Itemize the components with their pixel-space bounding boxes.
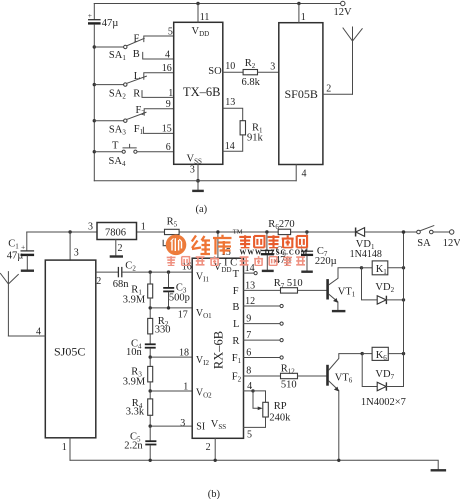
diode VD2: [362, 268, 404, 304]
watermark subtitle char 3: [268, 235, 280, 248]
svg-text:2: 2: [118, 243, 123, 254]
svg-text:F: F: [134, 33, 140, 44]
svg-text:68n: 68n: [113, 279, 130, 290]
svg-text:R: R: [133, 88, 140, 99]
svg-text:13: 13: [245, 280, 255, 291]
svg-text:L: L: [233, 319, 239, 330]
svg-text:T: T: [233, 269, 240, 280]
svg-text:SA1: SA1: [109, 50, 126, 62]
svg-text:3: 3: [180, 418, 185, 429]
svg-text:F2: F2: [232, 372, 242, 384]
node dot K1 left: [360, 266, 363, 269]
wire SJ05C pin 4: [8, 326, 45, 337]
svg-text:RX–6B: RX–6B: [212, 331, 226, 369]
resistor R4 3.3k: [126, 391, 153, 426]
svg-text:WWW.DZSC.COM: WWW.DZSC.COM: [240, 250, 309, 257]
wire to pin 17: [150, 308, 192, 320]
svg-text:C2: C2: [125, 261, 136, 273]
svg-text:F1: F1: [232, 353, 242, 365]
svg-text:B: B: [133, 49, 140, 60]
svg-text:R5: R5: [167, 217, 178, 229]
node dot right rail top: [402, 230, 406, 234]
svg-text:RP: RP: [274, 401, 287, 412]
svg-text:4: 4: [36, 326, 41, 337]
resistor R1 3.9M (b): [123, 272, 153, 308]
wire pin 4 stub: [244, 381, 254, 392]
watermark subtitle char 1: [239, 235, 251, 248]
transistor VT6: [328, 354, 363, 461]
resistor R3 3.9M: [123, 357, 153, 391]
node dot C3 top: [167, 270, 170, 273]
watermark title char 2: [213, 235, 232, 255]
wire bottom rail (b): [70, 460, 438, 469]
resistor R7 510: [274, 278, 303, 293]
wire top rail (b) left: [27, 231, 97, 233]
antenna (b): [1, 272, 19, 336]
node dot C7 rail: [305, 230, 308, 233]
svg-text:VI1: VI1: [196, 272, 210, 284]
wire RX-6B pin 2 VSS: [206, 438, 216, 460]
svg-text:T: T: [112, 141, 119, 152]
node dot VSS bottom: [214, 459, 217, 462]
wire R12 to VT6 base: [298, 375, 327, 377]
wire pin 11 VDD: [198, 4, 209, 24]
capacitor C3 500p: [163, 272, 190, 308]
svg-text:240k: 240k: [269, 412, 291, 423]
wire pin 7 R stub: [244, 330, 284, 342]
svg-text:220µ: 220µ: [315, 256, 337, 267]
svg-text:R2: R2: [245, 58, 256, 70]
node SF05B pin1 junction dot: [297, 2, 300, 5]
wire pin 8 F2: [244, 366, 281, 377]
svg-text:10n: 10n: [126, 347, 143, 358]
node dot pin1: [149, 389, 152, 392]
switch SA2: [93, 76, 147, 100]
wire bottom rail (a): [94, 180, 296, 182]
node F1 contact: [134, 124, 174, 136]
wire pin 13 F: [244, 280, 281, 291]
svg-text:VT1: VT1: [338, 287, 356, 299]
svg-text:18: 18: [179, 348, 189, 359]
transistor VT1: [328, 268, 362, 310]
ground C1: [21, 270, 34, 272]
wire C2 to pin 16: [123, 262, 193, 273]
ground 7806: [110, 255, 123, 257]
wire pin 6 F1 stub: [244, 348, 284, 360]
ground (a): [192, 181, 204, 191]
svg-text:VD7: VD7: [375, 369, 394, 381]
node dot C3 bottom: [167, 306, 170, 309]
capacitor C5 2.2n: [124, 426, 156, 460]
svg-text:3: 3: [88, 221, 93, 232]
wire to pin 1 (VO2): [150, 381, 192, 392]
svg-text:47µ: 47µ: [7, 251, 24, 262]
node dot C5 bottom: [149, 459, 152, 462]
node dot K1 right rail: [402, 266, 405, 269]
svg-text:1: 1: [183, 381, 188, 392]
node dot VT6 emitter bottom: [337, 459, 340, 462]
node L contact: [134, 63, 174, 82]
svg-text:1: 1: [141, 221, 146, 232]
svg-text:2: 2: [326, 84, 331, 95]
svg-text:R: R: [232, 336, 239, 347]
switch SA1: [93, 38, 145, 62]
svg-text:3.9M: 3.9M: [123, 377, 146, 388]
svg-text:1N4148: 1N4148: [350, 249, 382, 260]
svg-text:1: 1: [301, 12, 306, 23]
svg-text:1: 1: [62, 442, 67, 453]
wire SF05B pin 1: [299, 4, 306, 24]
svg-text:12V: 12V: [334, 7, 353, 18]
op IC U1 TX-6B: [174, 22, 223, 165]
wire SF05B pin 2: [323, 84, 353, 95]
RF module SJ05C: [45, 260, 96, 438]
svg-text:VI2: VI2: [196, 355, 210, 367]
svg-text:3: 3: [270, 61, 275, 72]
svg-text:C1: C1: [8, 239, 19, 251]
svg-text:SA3: SA3: [109, 124, 126, 136]
svg-text:SJ05C: SJ05C: [54, 345, 85, 359]
watermark logo disc: [166, 235, 187, 256]
wire SJ05C pin 2 to C2: [96, 272, 118, 287]
svg-text:SI: SI: [196, 422, 205, 433]
svg-text:+: +: [88, 11, 92, 20]
svg-text:6: 6: [246, 348, 251, 359]
node ground junction (a): [196, 179, 200, 183]
svg-text:VSS: VSS: [211, 419, 226, 431]
wire top rail (a): [94, 3, 340, 5]
svg-text:SA: SA: [417, 238, 431, 249]
resistor R2 6.8k: [242, 58, 261, 88]
wire pin 13: [223, 97, 243, 121]
12V terminal (b): [443, 230, 460, 249]
svg-text:I C: I C: [224, 257, 237, 268]
svg-text:6.8k: 6.8k: [242, 77, 261, 88]
resistor R12 510: [281, 363, 298, 390]
resistor R2 330 (b): [148, 308, 171, 344]
wire pin 9 L stub: [244, 314, 284, 326]
svg-text:17: 17: [178, 309, 188, 320]
node R contact: [133, 88, 174, 100]
svg-text:4: 4: [165, 50, 170, 61]
wire pin 14: [223, 135, 243, 152]
svg-text:4: 4: [302, 168, 307, 179]
svg-text:F1: F1: [134, 124, 144, 136]
wire SO pin 10: [223, 61, 243, 72]
svg-text:2: 2: [206, 442, 211, 453]
svg-text:2.2n: 2.2n: [124, 441, 143, 452]
wire SJ05C pin 3: [70, 232, 79, 260]
RF module SF05B: [279, 23, 323, 165]
watermark subtitle char 5: [297, 236, 307, 248]
resistor R5: [165, 217, 180, 235]
wire to pin 18: [150, 348, 192, 359]
svg-text:SO: SO: [208, 66, 222, 77]
svg-text:12V: 12V: [443, 238, 460, 249]
svg-text:(a): (a): [196, 204, 208, 215]
wire 7806 pin 2 to ground: [116, 240, 123, 256]
diode VD7: [361, 354, 406, 408]
svg-text:(b): (b): [208, 489, 221, 499]
wire pin 12 B stub: [244, 296, 284, 308]
svg-text:9: 9: [166, 99, 171, 110]
node F contact: [134, 27, 174, 45]
svg-text:VDD: VDD: [192, 26, 210, 38]
op IC U2 RX-6B: [192, 258, 243, 438]
svg-text:12: 12: [245, 296, 255, 307]
node B contact: [133, 49, 174, 60]
svg-text:510: 510: [281, 379, 297, 390]
node dot R1 bottom: [149, 306, 152, 309]
node dot K6 right rail: [402, 352, 405, 355]
diode VD1 1N4148: [350, 228, 382, 261]
capacitor C7 220u: [300, 232, 337, 270]
svg-text:5: 5: [247, 430, 252, 441]
node SJ05C pin3 dot: [68, 230, 71, 233]
ground C7: [301, 271, 313, 273]
switch SA4 pushbutton: [93, 141, 174, 168]
svg-text:5: 5: [168, 27, 173, 38]
capacitor C6 47u: [261, 232, 292, 270]
svg-text:VO2: VO2: [196, 388, 212, 400]
svg-text:TM: TM: [233, 229, 243, 236]
svg-text:14: 14: [225, 141, 235, 152]
svg-text:VD2: VD2: [375, 282, 394, 294]
switch SA3: [93, 112, 146, 136]
capacitor 47u (a): [88, 4, 119, 181]
antenna (a): [343, 27, 362, 94]
watermark leftover mark: [163, 240, 166, 246]
svg-text:7: 7: [246, 330, 251, 341]
node dot pin4: [251, 389, 254, 392]
svg-text:1: 1: [168, 88, 173, 99]
svg-text:1N4002×7: 1N4002×7: [361, 397, 406, 408]
node dot R1 top: [149, 270, 152, 273]
svg-text:R12: R12: [281, 363, 296, 375]
wire pin 3 VSS to ground: [190, 164, 198, 180]
svg-text:91k: 91k: [247, 133, 264, 144]
svg-text:3.9M: 3.9M: [123, 294, 146, 305]
watermark slogan row: [167, 256, 305, 268]
svg-text:F: F: [233, 286, 239, 297]
ground C6: [262, 270, 274, 272]
wire pin 14 T stub: [244, 263, 258, 275]
svg-text:2: 2: [96, 276, 101, 287]
watermark subtitle char 4: [282, 235, 294, 248]
svg-text:6: 6: [166, 142, 171, 153]
wire SJ05C pin 1: [62, 438, 70, 461]
svg-text:R7 510: R7 510: [274, 278, 303, 290]
capacitor C1 47u (b): [7, 232, 34, 269]
capacitor C2 68n: [113, 261, 137, 290]
svg-text:500p: 500p: [169, 292, 190, 303]
svg-text:SA2: SA2: [109, 89, 126, 101]
svg-text:VT6: VT6: [335, 372, 353, 384]
svg-text:L: L: [134, 71, 140, 82]
regulator 7806: [88, 221, 146, 239]
svg-text:3: 3: [190, 165, 195, 176]
wire SF05B pin 4: [296, 165, 306, 181]
svg-text:15: 15: [162, 124, 172, 135]
svg-text:VO1: VO1: [196, 308, 212, 320]
12V terminal (a): [334, 1, 353, 18]
node dot pin3: [149, 424, 152, 427]
resistor R1 91k: [240, 121, 263, 144]
resistor R6 270: [268, 219, 294, 235]
node F2 contact: [136, 99, 174, 117]
node dot pin15 rail: [216, 230, 219, 233]
svg-text:9: 9: [246, 314, 251, 325]
node dot C6 rail: [265, 230, 268, 233]
potentiometer RP 240k: [244, 391, 292, 441]
watermark subtitle char 2: [254, 236, 264, 248]
svg-text:SA4: SA4: [109, 156, 126, 168]
wire right rail (b): [403, 232, 405, 387]
svg-text:13: 13: [225, 97, 235, 108]
svg-text:16: 16: [162, 63, 172, 74]
ground bottom right: [431, 469, 447, 471]
svg-text:R6270: R6270: [268, 219, 294, 231]
node dot K6 left: [361, 352, 364, 355]
svg-text:TX–6B: TX–6B: [183, 85, 221, 99]
labels RX-6B right pins: [232, 269, 242, 384]
svg-text:330: 330: [155, 324, 171, 335]
relay K1: [362, 261, 404, 276]
svg-text:47µ: 47µ: [102, 18, 119, 29]
watermark title char 1: [192, 236, 210, 255]
svg-text:SF05B: SF05B: [285, 87, 318, 101]
capacitor C4 10n: [126, 338, 156, 358]
relay K6: [362, 347, 403, 362]
switch SA (b): [417, 226, 434, 249]
svg-text:8: 8: [246, 366, 251, 377]
wire to pin 3 (SI): [150, 418, 192, 429]
svg-text:11: 11: [200, 12, 210, 23]
wire R7 to VT1 base: [298, 289, 327, 291]
wire R2 to SF05B pin 3: [258, 61, 279, 72]
svg-text:7806: 7806: [105, 227, 126, 238]
node dot VD2 rail: [402, 298, 405, 301]
wire top rail (b) mid: [137, 231, 450, 233]
labels RX-6B left pins: [196, 272, 212, 433]
node VDD junction dot (a): [196, 2, 199, 5]
svg-text:B: B: [232, 302, 239, 313]
node dot pin18: [149, 355, 152, 358]
ground VT1 emitter: [332, 310, 346, 312]
wire RX-6B pin 15 VDD: [218, 232, 231, 258]
svg-text:10: 10: [225, 61, 235, 72]
svg-text:3.3k: 3.3k: [126, 407, 145, 418]
svg-text:3: 3: [74, 247, 79, 258]
